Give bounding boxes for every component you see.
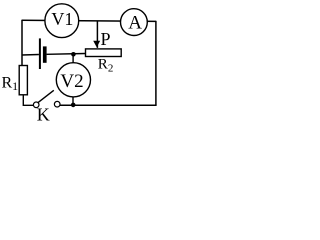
- svg-text:V1: V1: [51, 9, 73, 29]
- resistor R1 body: [19, 66, 27, 95]
- wire slider stem from top bus: [96, 21, 98, 48]
- switch K blade: [38, 90, 54, 102]
- switch K left terminal: [33, 102, 39, 108]
- battery long plate: [39, 38, 41, 69]
- wire right border from top corner down to bottom corner: [155, 21, 157, 106]
- wire R1 bottom stub to switch left terminal: [23, 95, 33, 105]
- wire battery left lead: [22, 54, 39, 57]
- wire stub from V2 bottom to bottom bus: [72, 97, 74, 105]
- wire top bus from left corner to right corner: [22, 20, 156, 21]
- svg-text:V2: V2: [60, 71, 83, 92]
- wire left border from top corner down to R1 top: [21, 20, 23, 65]
- svg-text:A: A: [128, 13, 142, 34]
- svg-text:R1: R1: [2, 75, 19, 93]
- rheostat R2 body: [86, 49, 122, 57]
- voltmeter V1: [45, 4, 79, 38]
- node junction dot on battery wire: [71, 52, 76, 57]
- battery short plate: [43, 46, 47, 62]
- svg-text:K: K: [37, 105, 50, 123]
- slider arrow P head: [93, 41, 100, 47]
- ammeter A: [120, 9, 147, 36]
- switch K right terminal: [54, 101, 60, 107]
- svg-text:P: P: [101, 29, 111, 49]
- node junction dot on bottom bus: [71, 103, 76, 108]
- voltmeter V2: [56, 63, 90, 97]
- wire battery right lead to R2: [47, 53, 86, 56]
- svg-text:R2: R2: [98, 56, 114, 74]
- wire stub from junction down to V2 top: [72, 54, 74, 63]
- wire bottom bus from switch right terminal to bottom right corner: [60, 104, 157, 106]
